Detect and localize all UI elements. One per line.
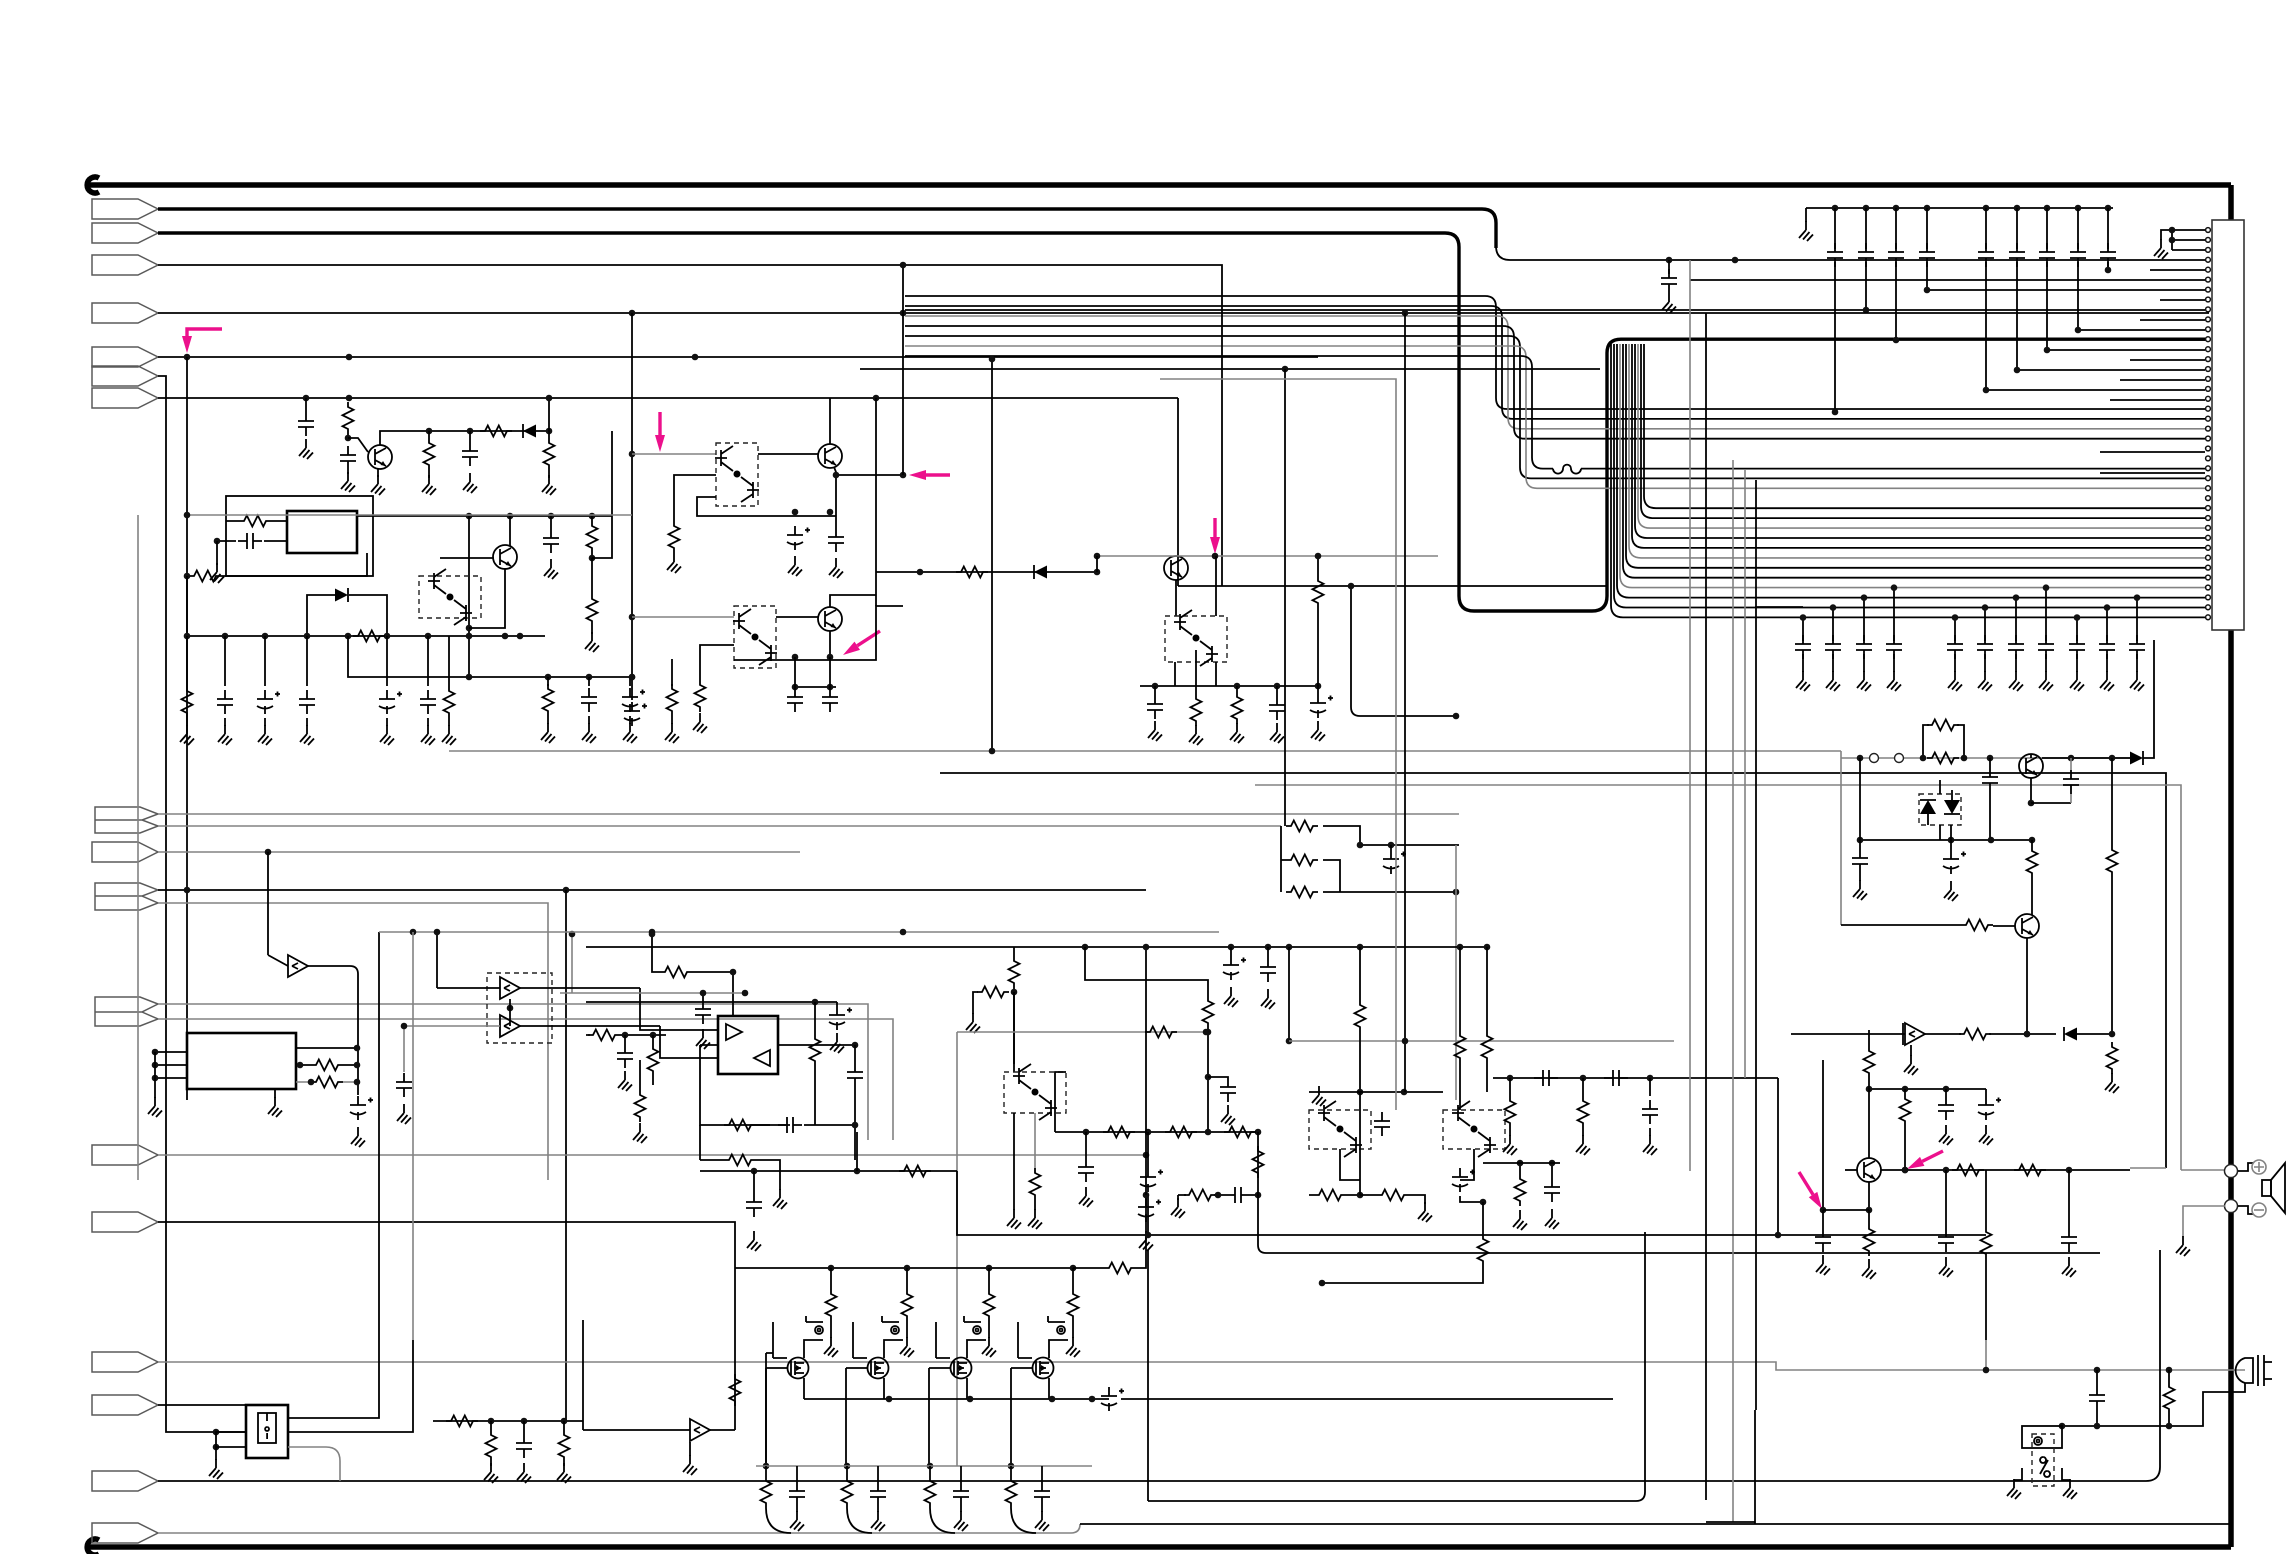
stub [1868, 1210, 1870, 1224]
junction [1228, 944, 1235, 951]
dual transistor package [487, 973, 552, 1043]
capacitor [847, 1063, 863, 1087]
stub [224, 718, 226, 726]
ground [683, 1455, 697, 1475]
Q5 collector [830, 595, 876, 607]
wire [586, 946, 1487, 948]
junction [1286, 944, 1293, 951]
ground [1799, 221, 1813, 241]
junction [2059, 1423, 2066, 1430]
junction [2044, 205, 2051, 212]
wire [956, 1032, 958, 1466]
junction [2013, 594, 2020, 601]
junction [792, 684, 799, 691]
pin 5 [2206, 267, 2211, 272]
pin wire [1927, 289, 2205, 291]
resistor [724, 1155, 756, 1166]
junction [2028, 800, 2035, 807]
wire [830, 1321, 832, 1330]
bundle wire with ferrite bead [905, 356, 2209, 469]
wire y1253 [1258, 1195, 2100, 1253]
junction [1863, 307, 1870, 314]
stub [753, 1171, 755, 1193]
wire conn3 [158, 265, 1222, 586]
pin 28 [2206, 496, 2211, 501]
junction [1143, 1152, 1150, 1159]
wire [1359, 947, 1361, 1000]
dual transistor package [1004, 1072, 1066, 1113]
junction [917, 569, 924, 576]
wire [1860, 839, 2032, 841]
wire to pair D [632, 616, 734, 618]
stub [2031, 878, 2033, 915]
junction [1902, 1167, 1909, 1174]
plus circle [2252, 1160, 2266, 1174]
capacitor [746, 1193, 762, 1217]
resistor [1286, 821, 1318, 832]
cluster loop [700, 1171, 974, 1235]
capacitor [1978, 243, 1994, 267]
wire [1177, 398, 1179, 586]
stub [960, 1506, 962, 1512]
dual transistor pair [1013, 1064, 1057, 1120]
resistor [480, 426, 512, 437]
wire [158, 825, 1281, 827]
pin wire [2130, 359, 2205, 361]
FET drain pulldown [929, 1368, 950, 1466]
resistor [311, 1060, 343, 1071]
stub [1582, 1078, 1584, 1096]
junction [1357, 1089, 1364, 1096]
junction [1082, 944, 1089, 951]
pin 13 [2206, 347, 2211, 352]
ground [484, 1463, 498, 1483]
junction [1094, 569, 1101, 576]
FET [788, 1358, 809, 1379]
resistor [695, 680, 706, 712]
diode [2130, 751, 2143, 765]
wire [1288, 947, 1290, 1041]
stub [1582, 1128, 1584, 1136]
pin wire [2150, 339, 2205, 341]
stub [1041, 1506, 1043, 1512]
pin 15 [2206, 367, 2211, 372]
connector J y=1222 [92, 1212, 158, 1232]
junction [1402, 1038, 1409, 1045]
connector pair [95, 997, 158, 1026]
wire [671, 659, 673, 677]
junction [184, 512, 191, 519]
stub [1950, 840, 1952, 850]
wire conn y1362 (to mic) [158, 1362, 2245, 1370]
resistor [648, 1044, 659, 1076]
capacitor [1078, 1158, 1094, 1182]
wire [186, 576, 188, 636]
ground [1978, 671, 1992, 691]
resistor [1313, 576, 1324, 608]
wire [548, 398, 550, 431]
electrolytic capacitor [350, 1096, 373, 1120]
page border bottom [86, 1544, 2231, 1550]
resistor [1377, 1190, 1409, 1201]
capacitor [1982, 768, 1998, 792]
junction [1049, 1396, 1056, 1403]
junction [466, 633, 473, 640]
resistor [1191, 694, 1202, 726]
junction [297, 1062, 304, 1069]
resistor [730, 1374, 741, 1406]
wire [377, 469, 379, 477]
wire [412, 932, 414, 1340]
wire [1706, 1521, 1755, 1523]
wire [829, 398, 831, 444]
stub [1822, 1210, 1824, 1228]
wire [1459, 1063, 1461, 1110]
pin 9 [2206, 307, 2211, 312]
capacitor [617, 1044, 633, 1068]
connector J y=233 [92, 223, 158, 243]
junction [1866, 1207, 1873, 1214]
resistor [1314, 1190, 1346, 1201]
diode [335, 588, 348, 602]
ground [1418, 1202, 1432, 1222]
ground [2105, 1073, 2119, 1093]
pin 6 [2206, 277, 2211, 282]
ground [557, 1463, 571, 1483]
resistor [2164, 1382, 2175, 1414]
ground [2062, 1257, 2076, 1277]
wire [2181, 1169, 2227, 1171]
junction [1274, 683, 1281, 690]
capacitor [1544, 1178, 1560, 1202]
wire [591, 558, 593, 594]
junction [1205, 1129, 1212, 1136]
wire to pair B [632, 453, 716, 455]
junction [467, 428, 474, 435]
junction [622, 1032, 629, 1039]
stub [490, 1462, 492, 1466]
junction [1286, 1038, 1293, 1045]
junction [986, 1265, 993, 1272]
pin 19 [2206, 406, 2211, 411]
electrolytic capacitor [1978, 1096, 2001, 1120]
pin 39 [2206, 605, 2211, 610]
FET source [803, 1378, 805, 1399]
junction [1215, 1192, 1222, 1199]
wire [2026, 938, 2028, 1034]
junction [1507, 1075, 1514, 1082]
junction [265, 849, 272, 856]
jack switch box [2022, 1426, 2062, 1448]
diode [523, 424, 536, 438]
wire [1317, 556, 1319, 576]
ground [665, 723, 679, 743]
wire [449, 750, 1841, 752]
wire [1072, 1321, 1074, 1330]
dual transistor pair [733, 609, 777, 665]
stub [1154, 686, 1156, 695]
junction [466, 513, 473, 520]
junction [346, 354, 353, 361]
junction [1983, 1367, 1990, 1374]
pin 26 [2206, 476, 2211, 481]
wire [1486, 1063, 1488, 1092]
junction [1070, 1265, 1077, 1272]
transistor [818, 444, 842, 468]
stub [1985, 1089, 1987, 1096]
junction [308, 1079, 315, 1086]
ground [747, 1231, 761, 1251]
stub [794, 657, 796, 688]
capacitor [1888, 243, 1904, 267]
ground [1887, 671, 1901, 691]
pin 4 [2206, 257, 2211, 262]
pin 30 [2206, 516, 2211, 521]
wire [1309, 1091, 1443, 1093]
connector J y=1481 [92, 1471, 158, 1491]
resistor [1927, 720, 1959, 731]
ground [2063, 1479, 2077, 1499]
connector J y=1362 [92, 1352, 158, 1372]
connector J y=1155 [92, 1145, 158, 1165]
capacitor [543, 529, 559, 553]
junction [2169, 237, 2176, 244]
buffer [500, 977, 520, 999]
resistor [842, 1476, 853, 1508]
ground [209, 1459, 223, 1479]
Q9 base wire [1845, 1169, 1857, 1171]
junction [792, 654, 799, 661]
junction [2169, 227, 2176, 234]
wire [2168, 1370, 2170, 1382]
ground [1312, 1086, 1326, 1106]
junction [184, 887, 191, 894]
stub [960, 1466, 962, 1482]
junction [1775, 1232, 1782, 1239]
speaker SP [2238, 1163, 2262, 1214]
stub [386, 718, 388, 726]
capacitor [1661, 269, 1677, 293]
junction [649, 931, 656, 938]
stub [1317, 686, 1319, 694]
junction [1647, 1075, 1654, 1082]
ground [421, 725, 435, 745]
junction [434, 929, 441, 936]
wire pair B to Q4 [758, 453, 818, 455]
pin wire [905, 309, 2205, 311]
wire [158, 813, 1459, 815]
ground [148, 1097, 162, 1117]
connector J y=313 [92, 303, 158, 323]
junction [502, 633, 509, 640]
junction [425, 633, 432, 640]
capacitor C [2015, 598, 2017, 672]
wire [735, 1267, 1073, 1269]
wire [158, 397, 1178, 399]
cap to gnd [639, 1060, 641, 1090]
resistor [1068, 1289, 1079, 1321]
junction [213, 1429, 220, 1436]
electrolytic capacitor [622, 688, 645, 712]
resistor [1515, 1174, 1526, 1206]
capacitor [340, 446, 356, 470]
capacitor [1919, 243, 1935, 267]
wire [1459, 947, 1461, 1031]
wire [1904, 1126, 1906, 1170]
wire [1777, 1078, 1779, 1235]
transistor [493, 545, 517, 569]
resistor [1104, 1263, 1136, 1274]
ground [790, 1511, 804, 1531]
wire [906, 1268, 908, 1289]
stub [1649, 1078, 1651, 1096]
junction [586, 674, 593, 681]
pin 20 [2206, 416, 2211, 421]
junction [561, 1418, 568, 1425]
transistor [2019, 754, 2043, 778]
wire [1744, 470, 1746, 1078]
resistor [1103, 1127, 1135, 1138]
resistor [667, 684, 678, 716]
resistor [984, 1289, 995, 1321]
resistor [353, 631, 385, 642]
wire [1455, 845, 1457, 1100]
wire [347, 470, 349, 474]
junction [2024, 1031, 2031, 1038]
electrolytic capacitor [1310, 694, 1333, 718]
wire [830, 1268, 832, 1289]
wire [1985, 1170, 1987, 1227]
ground [1662, 293, 1676, 313]
stub [1230, 947, 1232, 956]
ground [954, 1511, 968, 1531]
junction [1388, 842, 1395, 849]
wire [957, 1031, 1206, 1033]
wire [765, 1466, 767, 1476]
junction [2044, 347, 2051, 354]
stub [2096, 1370, 2098, 1386]
junction [692, 354, 699, 361]
dual transistor pair [715, 446, 759, 502]
wire continues to pin [1496, 246, 2209, 260]
bundle wire [905, 316, 2209, 429]
pin wire [2140, 319, 2205, 321]
bundle wire [905, 336, 2209, 478]
magenta arrow 4 [909, 470, 950, 480]
ground [1576, 1135, 1590, 1155]
stub [1649, 1128, 1651, 1136]
capacitor [828, 528, 844, 552]
corner from y751 [1840, 751, 1842, 925]
capacitor [2129, 635, 2145, 659]
wire [548, 470, 550, 478]
stub [2070, 758, 2072, 770]
ground [1230, 723, 1244, 743]
ground [1857, 671, 1871, 691]
diode loop [307, 595, 387, 636]
FET drain [804, 1340, 823, 1358]
resistor [1505, 1096, 1516, 1128]
capacitor [420, 690, 436, 714]
capacitor [1260, 958, 1276, 982]
resistor [1959, 1029, 1991, 1040]
ground [966, 1013, 980, 1033]
capacitor [1534, 1070, 1558, 1086]
pad + [2225, 1165, 2238, 1178]
bundle wire [1614, 344, 2209, 608]
junction [262, 633, 269, 640]
junction [2109, 755, 2116, 762]
wire [814, 1066, 816, 1125]
ground [582, 723, 596, 743]
wire [1034, 1200, 1036, 1210]
capacitor [953, 1482, 969, 1506]
wire [1868, 1089, 1870, 1158]
junction [1315, 683, 1322, 690]
capacitor C [1865, 208, 1867, 310]
wire [1359, 1092, 1361, 1195]
junction [521, 1418, 528, 1425]
junction [303, 395, 310, 402]
stub [652, 1076, 654, 1085]
junction [1319, 1280, 1326, 1287]
junction [548, 513, 555, 520]
junction [904, 1265, 911, 1272]
pin 37 [2206, 585, 2211, 590]
IC pins left [155, 1051, 187, 1053]
wire [902, 265, 904, 475]
junction [927, 1463, 934, 1470]
dual transistor package [1309, 1110, 1371, 1149]
coupling line [1493, 1077, 1778, 1079]
junction [1205, 1074, 1212, 1081]
resistor [1864, 1224, 1875, 1256]
resistor [899, 1166, 931, 1177]
junction [742, 990, 749, 997]
capacitor C [1895, 208, 1897, 340]
bundle wire [1611, 344, 2209, 617]
Q1 base wire [348, 438, 368, 452]
FET gate wire [936, 1322, 950, 1358]
junction [1457, 944, 1464, 951]
wire [860, 368, 1600, 370]
buffer [500, 1015, 520, 1037]
resistor [343, 402, 354, 434]
ferrite bead L [1553, 465, 1581, 474]
ground [2176, 1236, 2190, 1256]
resistor [1184, 1190, 1216, 1201]
stub [671, 716, 673, 724]
ground [1221, 1105, 1235, 1125]
wire [1705, 313, 1707, 1500]
ground [773, 1189, 787, 1209]
junction [812, 999, 819, 1006]
box legs [1175, 650, 1216, 694]
pin 16 [2206, 377, 2211, 382]
wire [1178, 585, 1607, 587]
resistor [1286, 887, 1318, 898]
junction [1480, 1199, 1487, 1206]
stub [588, 677, 590, 686]
wire [2031, 802, 2071, 804]
electrolytic capacitor [1943, 850, 1966, 874]
ground [1904, 1055, 1918, 1075]
pin [152, 1062, 159, 1069]
junction [1580, 1075, 1587, 1082]
ground [667, 553, 681, 573]
capacitor [1269, 696, 1285, 720]
wire [1360, 844, 1459, 846]
